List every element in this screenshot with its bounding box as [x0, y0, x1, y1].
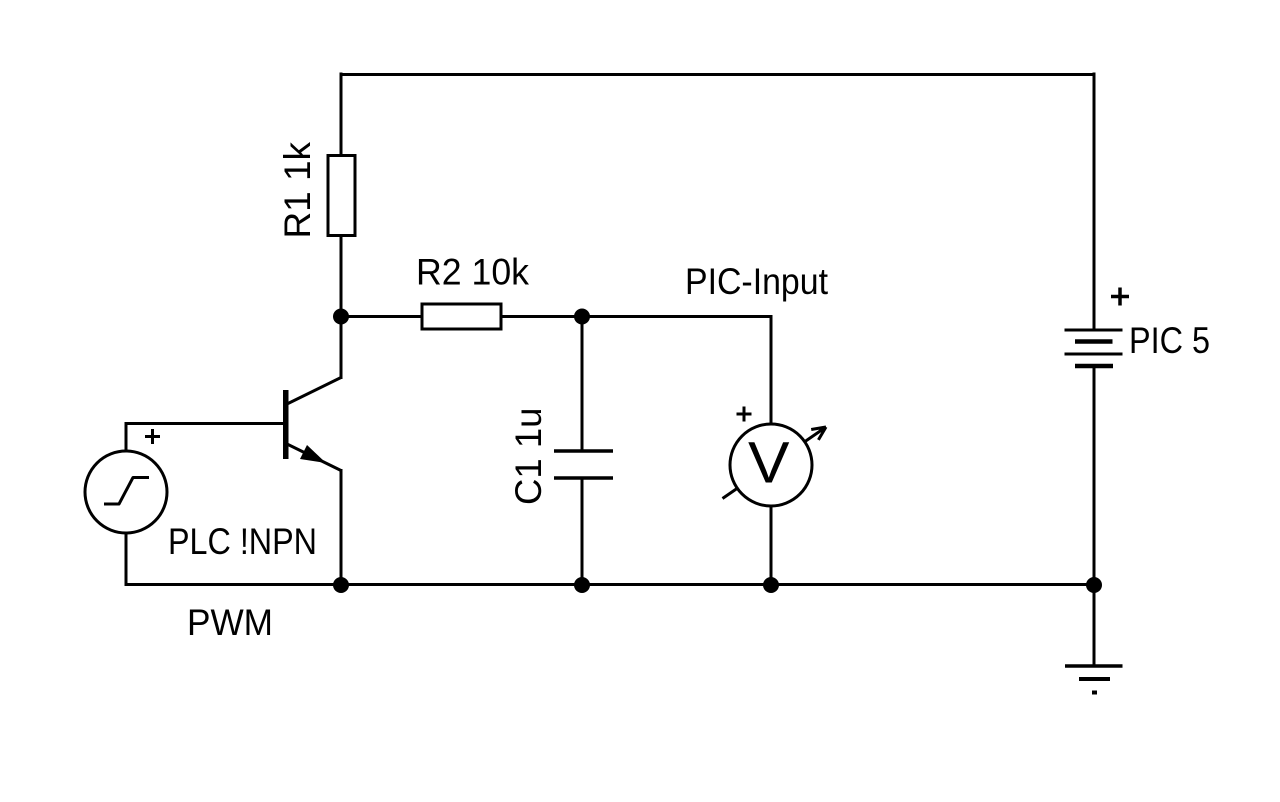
- wire node to voltmeter corner: [582, 317, 771, 426]
- transistor Q1 base bar: [283, 390, 289, 459]
- voltmeter variable arrow: [723, 427, 827, 499]
- wire source bottom lead: [125, 533, 128, 586]
- wire collector to node: [340, 317, 343, 380]
- wire top rail: [340, 73, 1096, 76]
- node junction battery/ground/bottom rail: [1086, 577, 1102, 593]
- voltmeter U1 circle: [730, 424, 812, 506]
- svg-text:PIC-Input: PIC-Input: [685, 261, 829, 302]
- node junction R2/C1/voltmeter: [574, 309, 590, 325]
- source PWM circle: [85, 451, 167, 533]
- wire C1 top lead: [581, 317, 584, 452]
- resistor R1: [328, 156, 355, 236]
- svg-text:R1 1k: R1 1k: [277, 142, 318, 239]
- wire right rail top to battery: [1093, 73, 1096, 331]
- source PWM plus polarity mark: [145, 429, 160, 444]
- wire R1 top lead: [340, 73, 343, 158]
- wire C1 bottom lead: [581, 478, 584, 585]
- wire node to R2: [341, 315, 423, 318]
- source PWM step waveform: [104, 478, 149, 505]
- wire battery to bottom rail: [1093, 366, 1096, 585]
- capacitor C1 top plate: [554, 449, 613, 453]
- wire R1 bottom lead: [340, 236, 343, 318]
- voltmeter plus polarity mark: [737, 407, 752, 422]
- ground symbol: [1065, 666, 1123, 693]
- transistor Q1 emitter diagonal: [287, 444, 341, 471]
- svg-text:PWM: PWM: [187, 602, 273, 643]
- transistor Q1 emitter arrow: [300, 445, 326, 463]
- wire voltmeter bottom lead: [770, 506, 773, 585]
- transistor Q1 collector diagonal: [287, 378, 341, 405]
- wire bottom rail to ground: [1093, 585, 1096, 666]
- svg-text:R2 10k: R2 10k: [416, 252, 529, 293]
- battery plus polarity mark: [1111, 288, 1129, 306]
- svg-text:V: V: [748, 431, 790, 496]
- node junction emitter/bottom rail: [333, 577, 349, 593]
- wire emitter to bottom rail: [340, 469, 343, 586]
- node junction voltmeter/bottom rail: [763, 577, 779, 593]
- node junction R1/R2/collector: [333, 309, 349, 325]
- wire bottom rail: [125, 583, 1096, 586]
- battery V1 plates: [1065, 330, 1123, 366]
- capacitor C1 bottom plate: [554, 476, 613, 480]
- svg-text:C1 1u: C1 1u: [508, 408, 549, 506]
- svg-text:PIC 5: PIC 5: [1129, 320, 1210, 361]
- node junction C1/bottom rail: [574, 577, 590, 593]
- wire source top to transistor base: [126, 424, 284, 453]
- svg-text:PLC !NPN: PLC !NPN: [168, 521, 317, 562]
- wire R2 to node C1: [501, 315, 582, 318]
- resistor R2: [422, 304, 501, 329]
